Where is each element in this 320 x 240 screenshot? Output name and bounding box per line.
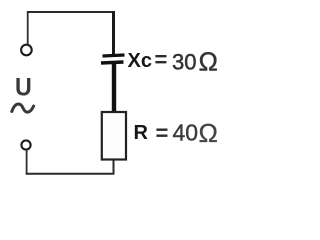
- wire left vertical lower: [26, 150, 28, 175]
- wire bottom horizontal: [26, 173, 114, 175]
- wire thick vertical (capacitor to resistor): [112, 63, 116, 113]
- svg-text:Xc: Xc: [128, 50, 152, 72]
- capacitor Xc bottom plate: [101, 62, 124, 63]
- svg-text:R: R: [134, 122, 149, 144]
- wire right vertical lower: [113, 159, 115, 175]
- terminal circle bottom: [21, 140, 30, 149]
- svg-text:40: 40: [173, 120, 199, 146]
- wire left vertical upper: [27, 11, 29, 45]
- capacitor Xc top plate: [103, 55, 125, 56]
- resistor R body: [102, 112, 126, 160]
- wire right vertical upper: [112, 11, 115, 55]
- svg-text:=: =: [155, 47, 168, 72]
- svg-text:Ω: Ω: [199, 118, 218, 148]
- svg-text:30: 30: [172, 50, 196, 75]
- AC sine symbol: [12, 104, 34, 112]
- wire top horizontal: [27, 11, 115, 13]
- svg-text:U: U: [15, 74, 32, 102]
- terminal circle top: [21, 45, 32, 56]
- svg-text:=: =: [156, 121, 169, 146]
- svg-text:Ω: Ω: [199, 47, 218, 77]
